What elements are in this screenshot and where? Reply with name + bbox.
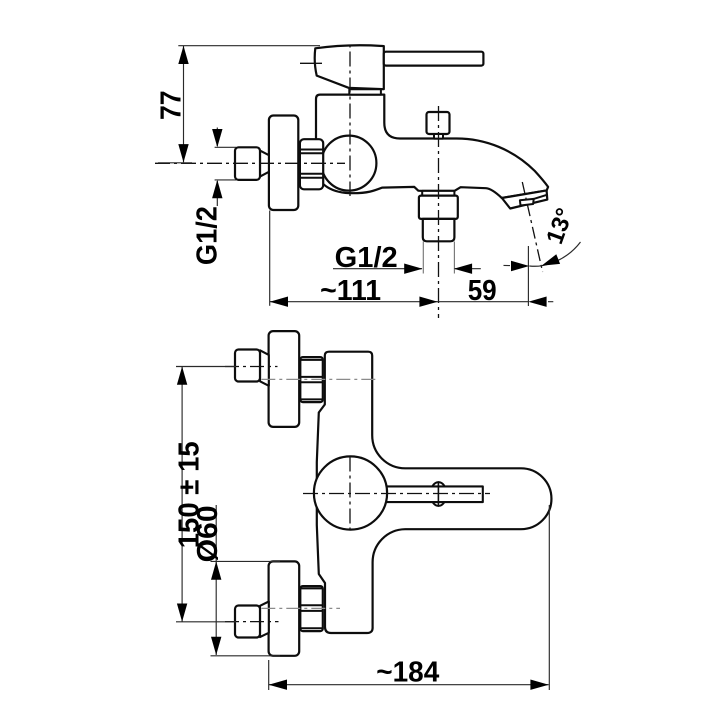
shower pipe ext lines (423, 242, 454, 274)
wall fitting G1/2 (235, 147, 260, 180)
dia60 dim line (215, 505, 217, 655)
arrow 59 right end (528, 297, 546, 307)
bottom fitting axis (plan) (225, 621, 279, 623)
svg-text:77: 77 (156, 91, 188, 121)
body outline (plan) (317, 352, 552, 633)
svg-text:G1/2: G1/2 (335, 242, 398, 274)
outlet vertical ext (527, 246, 529, 306)
faucet body with spout (316, 95, 548, 198)
arrow G1/2 left up (212, 180, 222, 198)
arrow ~184 left (269, 680, 287, 690)
hex nut (top view) (300, 139, 323, 189)
top nut eccentric axis (gray) (261, 378, 376, 380)
bottom wall flange (plan) (269, 561, 300, 655)
arrow G1/2 mid left-pointing (454, 264, 472, 274)
arrow ~111 right (419, 297, 437, 307)
tilted outlet axis 13deg (522, 182, 542, 272)
G1/2 left ext lines (215, 147, 236, 180)
vertical centerline cartridge axis (top view) (349, 44, 351, 197)
bottom eccentric taper (260, 602, 269, 638)
diverter knob stem (434, 134, 443, 139)
svg-text:59: 59 (468, 275, 497, 307)
top wall flange (plan) (269, 331, 300, 427)
eccentric taper (260, 151, 269, 177)
shower outlet threaded pipe (423, 219, 455, 241)
vertical centerline shower outlet (438, 106, 440, 318)
wall flange (top view) (269, 116, 298, 211)
horizontal centerline wall connection (top view) (155, 162, 345, 164)
bottom wall fitting (235, 606, 260, 638)
arrow 150 top (177, 367, 187, 385)
aerator insert (520, 199, 534, 206)
shower outlet block (419, 196, 458, 219)
dia60 ext lines (211, 561, 281, 655)
G1/2 mid right tail (454, 268, 481, 270)
handle cap (315, 45, 384, 89)
arrow G1/2 left down (212, 129, 222, 147)
dim 77 line (183, 46, 185, 163)
arrow ~111 left (270, 297, 288, 307)
svg-text:Ø60: Ø60 (192, 505, 224, 562)
bottom hex nut (plan) (300, 586, 323, 631)
top fitting axis (plan) (225, 366, 278, 368)
top nut facet lines (301, 360, 322, 400)
arrow 77 up (178, 46, 188, 64)
svg-text:13°: 13° (541, 205, 579, 248)
arrow ~184 right (530, 680, 548, 690)
lever pivot pin (plan) (431, 482, 447, 506)
dim 77 lower tick (158, 162, 192, 164)
bottom nut facet lines (301, 588, 322, 628)
lever handle (384, 52, 484, 66)
lever rod (plan) (382, 486, 483, 502)
arrow 150 bottom (177, 604, 187, 622)
G1/2 mid leader underline (333, 268, 422, 270)
svg-text:~111: ~111 (320, 275, 381, 307)
arrow dia60 up (211, 561, 221, 579)
dim ~184 ext lines (269, 505, 550, 690)
13 deg short tail (504, 264, 511, 266)
aerator step line (534, 195, 547, 199)
top eccentric taper (260, 350, 269, 386)
arrow dia60 down (211, 637, 221, 655)
cartridge circle (314, 456, 387, 529)
aerator outlet (tilted 13 deg) (502, 190, 547, 208)
13 deg arc tail (542, 242, 581, 266)
dim ~184 line (269, 684, 549, 686)
ball joint (321, 136, 376, 191)
svg-text:G1/2: G1/2 (191, 206, 223, 265)
arrow 77 down (178, 144, 188, 162)
vertical centerline cartridge (plan) (349, 457, 351, 530)
svg-text:~184: ~184 (376, 656, 439, 688)
dim 150+-15 line (181, 367, 183, 622)
cap collar (349, 89, 381, 94)
shower outlet collar (422, 191, 454, 196)
flange bottom ext line (269, 211, 271, 306)
arrow G1/2 mid right-pointing (404, 264, 422, 274)
handle pivot tick (300, 62, 322, 64)
top wall fitting (235, 350, 260, 382)
13 deg arc between arrows (529, 265, 541, 267)
bottom nut eccentric axis (gray) (261, 607, 340, 609)
diverter knob (427, 112, 450, 134)
arrow 13deg at tilted line (542, 254, 561, 265)
pin centerline vertical (437, 482, 439, 506)
G1/2 left dim line (216, 128, 218, 207)
top hex nut (plan) (300, 357, 323, 402)
nut facet lines (301, 150, 322, 178)
dim 150+-15 ext lines (176, 367, 236, 622)
dim 77 extension line top (178, 45, 320, 47)
dim line ~111 / 59 (270, 301, 554, 303)
horizontal centerline lever (plan) (303, 493, 490, 495)
arrow 13deg at vertical line (511, 261, 529, 271)
